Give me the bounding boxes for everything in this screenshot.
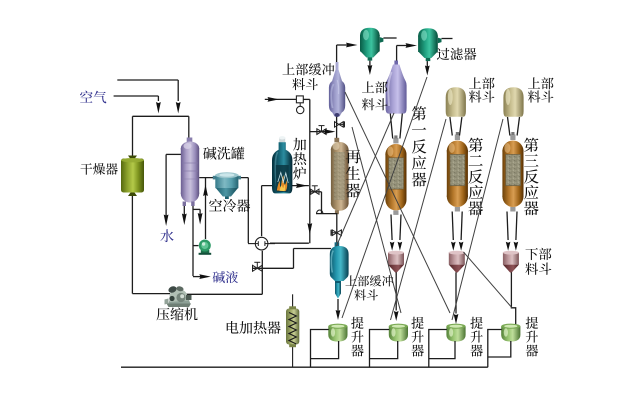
wire filter2 overhead <box>442 38 453 40</box>
wire air label line <box>114 95 159 97</box>
wire hopper3 to riser4 elbow <box>511 272 515 325</box>
arrow pump discharge up <box>203 185 208 197</box>
label reactor1 第一反应器 <box>412 106 426 120</box>
wire compressor discharge <box>186 293 262 295</box>
wire hopper2 to riser3 <box>455 272 457 313</box>
instrument line with arrow <box>265 98 297 100</box>
upper buffer hopper 上部缓冲料斗 (violet) <box>329 62 345 117</box>
wire to pump suction <box>193 245 199 247</box>
label upper hopper3 料斗 <box>528 91 541 103</box>
arrow filter1 bottom outlet <box>369 61 371 67</box>
arrow down on V1 <box>307 223 312 235</box>
wire exchanger top to furnace line <box>261 186 263 237</box>
wire filter1 overhead <box>383 37 396 39</box>
reactor3 第三反应器 <box>502 132 523 212</box>
arrow lye outlet <box>199 274 211 279</box>
label upper hopper1 料斗 <box>362 98 375 110</box>
arrow lower buffer into riser1 <box>337 299 339 311</box>
wire V1 regen control riser <box>303 98 310 100</box>
lift line riser1 to filter2 <box>342 77 427 318</box>
air cooler funnel 空冷器 <box>213 172 241 199</box>
lift line buffer hopper to riser3 <box>345 92 450 313</box>
valve on regen dump line <box>332 230 341 236</box>
bottom gas manifold <box>121 366 488 368</box>
riser4 gas bracket <box>488 330 502 368</box>
label air cooler 空冷器 <box>209 199 222 211</box>
arrow into regen downcomer <box>324 129 336 134</box>
lift line lower hopper2 to riser4 <box>464 252 513 308</box>
wire wash tank bottom drain <box>183 202 185 217</box>
label riser2 提升器 <box>411 317 423 329</box>
wire lye outlet <box>193 276 204 278</box>
label reactor3 第三反应器 <box>524 138 538 152</box>
electric heater 电加热器 <box>286 294 299 367</box>
lift line riser3 to hopper3 <box>452 119 503 320</box>
wires hopper3 to reactor3 <box>508 117 510 136</box>
arrow into riser2 <box>394 311 399 321</box>
label filter 过滤器 <box>437 48 450 60</box>
label upper hopper1 上部 <box>362 81 374 92</box>
alkali wash tank 碱洗罐 (purple column) <box>181 138 199 207</box>
filter2 过滤器 (green) <box>418 28 441 61</box>
valve on lye cooler bypass <box>252 267 294 269</box>
lift line hopper1 to lower buffer <box>337 113 395 246</box>
label electric heater 电加热器 <box>227 321 239 334</box>
wire manifold to wash tank <box>188 116 190 138</box>
label lower buffer 上部缓冲 <box>345 275 356 285</box>
compressor 压缩机 (gray machine) <box>165 285 192 307</box>
wire dryer outlet to compressor <box>131 192 133 294</box>
label upper buffer hopper 料斗 <box>292 78 305 90</box>
filter1 过滤器 (green) <box>360 28 383 61</box>
wires reactor3 dump arrows <box>507 212 508 241</box>
label furnace 加热炉 <box>293 138 306 151</box>
upper hopper3 上部料斗 (tan) <box>503 87 523 117</box>
lower hopper1 下部料斗 <box>388 251 404 273</box>
wire hopper1 to riser2 <box>395 272 397 310</box>
wire pump discharge riser <box>205 178 207 239</box>
reactor1 第一反应器 <box>385 135 406 215</box>
wire regenerator bottom to lower buffer <box>336 213 338 247</box>
label compressor 压缩机 <box>156 308 169 321</box>
valve on regen feed branch <box>317 129 326 135</box>
label reactor2 第二反应器 <box>468 138 482 152</box>
wire air top inlet line <box>117 79 178 81</box>
wires reactor1 dump arrows <box>391 215 392 241</box>
wire wash tank side nozzle to water drain <box>166 153 181 155</box>
arrow into manifold from top line <box>176 102 181 114</box>
riser1 提升器 <box>328 324 347 342</box>
wire buffer hopper overhead <box>336 45 338 68</box>
valve branch near regen bottom <box>310 191 322 193</box>
wire hopper1 to filter2 <box>396 46 398 64</box>
label lower hopper 下部 <box>526 248 538 260</box>
lower hopper3 下部料斗 <box>503 251 519 273</box>
upper hopper2 上部料斗 (tan) <box>446 87 466 117</box>
lower buffer hopper (teal) with dip tube <box>330 242 349 298</box>
wires hopper1 to reactor1 <box>390 114 392 139</box>
label riser1 提升器 <box>351 317 363 329</box>
arrow water drain 2 <box>182 214 187 226</box>
regenerator 再生器 (tan column) <box>331 138 349 214</box>
upper buffer hopper outlet valve <box>335 122 344 127</box>
arrow water drain 1 <box>164 215 169 227</box>
lift line riser2 up to buffer valve <box>352 127 401 313</box>
label riser3 提升器 <box>470 317 482 329</box>
label dryer 干燥器 <box>80 163 92 174</box>
label upper hopper2 上部 <box>469 77 481 88</box>
wire exchanger right to V1 <box>270 242 309 244</box>
wire cooler outlet down to exchanger <box>247 178 249 244</box>
reactor2 第二反应器 <box>447 132 468 212</box>
label lye 碱液 <box>213 271 225 283</box>
lift line riser2 to hopper2 <box>391 119 447 320</box>
lower hopper2 下部料斗 <box>449 251 465 273</box>
dryer (green cylinder) <box>121 156 144 197</box>
label water 水 <box>160 229 173 242</box>
wires hopper2 to reactor2 <box>450 117 452 136</box>
arrow into riser3 <box>454 314 459 324</box>
wire valve branch to regen feed <box>310 131 333 133</box>
wire furnace feed line <box>262 185 309 187</box>
riser2 提升器 <box>389 324 408 342</box>
arrow filter2 bottom outlet <box>426 61 428 67</box>
wire wash tank overhead to air cooler <box>199 177 248 179</box>
node air manifold header <box>133 115 189 117</box>
instrument square <box>296 96 303 103</box>
wire manifold to dryer <box>132 116 134 159</box>
wires reactor2 dump arrows <box>452 212 453 241</box>
arrow water drain 3 <box>198 213 203 225</box>
wire branch to drain 3 <box>193 208 200 210</box>
pump (green circulating pump) <box>199 240 212 255</box>
wire buffer hopper to regenerator <box>336 115 338 139</box>
riser1 gas bracket <box>311 330 329 368</box>
wire wash tank bottom outlet down <box>192 202 194 276</box>
riser2 gas bracket <box>370 330 390 368</box>
riser3 gas bracket <box>429 330 447 368</box>
riser4 提升器 <box>501 324 520 342</box>
heat exchanger (circle) <box>248 237 275 250</box>
arrow into regen riser line <box>296 183 308 188</box>
label upper buffer hopper 上部缓冲 <box>283 63 295 74</box>
label regenerator 再生器 <box>346 149 361 163</box>
label lower hopper 料斗 <box>525 263 538 275</box>
riser3 提升器 <box>446 324 465 342</box>
label riser4 提升器 <box>526 317 538 329</box>
label air 空气 <box>80 91 93 103</box>
instrument circle <box>297 106 304 113</box>
label upper hopper2 料斗 <box>469 91 482 103</box>
label lower buffer 料斗 <box>354 289 366 300</box>
label wash tank 碱洗罐 <box>203 147 216 160</box>
arrow into manifold from air line <box>156 102 161 114</box>
heating furnace 加热炉 (dark teal bottle with flame) <box>272 136 292 193</box>
label upper hopper3 上部 <box>528 77 540 88</box>
arrow into filter1 <box>346 43 358 48</box>
upper hopper1 上部料斗 (violet bullet) <box>386 61 407 114</box>
